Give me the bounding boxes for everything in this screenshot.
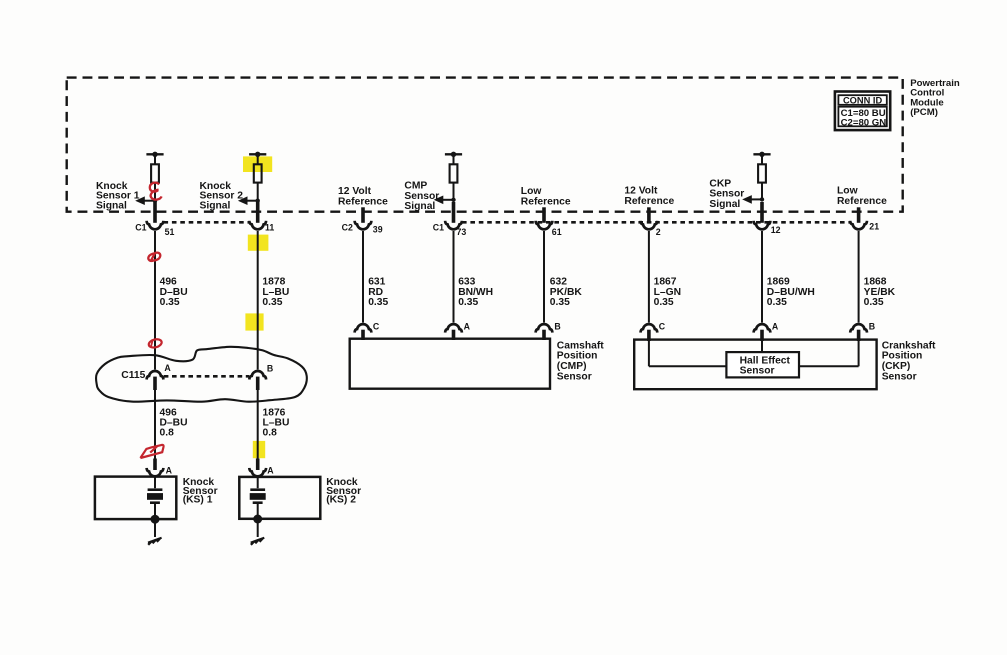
red scribble on KS1 driver resistor [150,183,162,200]
Knock Sensor (KS) 1 box [95,477,176,519]
dotted connector line C1 pins 51-11 [164,221,250,224]
connector terminal C at CMP [355,324,372,333]
svg-text:CONN ID: CONN ID [843,95,883,105]
dashed link between C115 pins A and B [164,375,249,378]
red scribble on wire 496 upper [148,253,160,261]
piezo element in KS2 [257,477,259,488]
svg-text:C: C [659,322,666,332]
CMP pin C stub [361,330,365,340]
connector terminal 21 (PCM side) [850,221,867,230]
pin stub 21 [857,207,861,223]
highlighter mark below pin 11 [248,235,269,251]
piezo element in KS1 [154,477,156,488]
CONN ID table outer box [835,92,890,131]
connector C1 terminal 73 (PCM side) [445,221,462,230]
svg-text:B: B [554,322,560,332]
arrow to CKP Sensor Signal label [742,195,752,204]
wire 1867 [648,231,650,323]
wire 1878 upper segment [257,231,259,370]
svg-text:KnockSensor(KS) 2: KnockSensor(KS) 2 [326,477,361,506]
junction dot in KS2 [253,515,262,524]
highlighter mark above KS2 pin A [253,441,265,458]
wire 632 [543,231,545,323]
svg-text:B: B [267,363,273,373]
red circle on wire 496 at blob [148,338,163,349]
svg-text:B: B [869,322,875,332]
resistor CKP driver in PCM [753,153,770,155]
svg-text:73: 73 [457,227,467,237]
svg-text:A: A [464,322,471,332]
connector A at KS1 [147,468,164,477]
highlighter mark over KS2 driver resistor [243,156,272,172]
ground symbol KS1 [148,538,162,543]
Crankshaft Position (CKP) Sensor box [634,340,876,390]
svg-text:21: 21 [869,222,879,232]
resistor KS2 driver in PCM [249,153,266,155]
svg-text:C2: C2 [342,223,353,233]
wire 1869 [761,231,763,323]
wire 631 [362,231,364,323]
connector terminal C at CKP [641,324,658,333]
CKP pin C stub [647,330,651,341]
pin stub 39 [361,207,365,223]
CKP internal wire from pin B [858,341,860,367]
PCM module dashed outline [67,78,903,212]
svg-text:61: 61 [552,227,562,237]
connector A at KS2 [249,468,266,477]
svg-text:A: A [267,466,274,476]
pin stub 51 [153,202,157,223]
connector C115 terminal A [147,371,164,380]
svg-text:C115: C115 [121,370,145,381]
Knock Sensor (KS) 2 box [239,477,320,519]
resistor KS1 driver in PCM [146,153,163,155]
red scribble above KS1 pin A [140,445,163,458]
pin stub 11 [256,202,260,223]
svg-text:51: 51 [165,227,175,237]
CKP internal wire from pin C [648,341,650,367]
connector terminal A at CKP [754,324,771,333]
arrow to Knock Sensor 2 Signal label [238,196,248,205]
CKP pin B stub [857,330,861,341]
svg-text:2: 2 [656,227,661,237]
connector terminal B at CMP [536,324,553,333]
connector C1 terminal 51 (PCM side) [147,221,164,230]
svg-text:A: A [772,322,779,332]
wire 1876 lower segment [257,390,259,460]
C115 pin B stub [256,377,260,390]
highlighter mark above C115 pin B [245,313,263,330]
pin stub 61 [542,207,546,223]
svg-text:39: 39 [373,224,383,234]
connector terminal 11 (PCM side) [249,221,266,230]
CKP internal wire from pin A [761,341,763,354]
pin stub 12 [760,202,764,223]
svg-text:C: C [373,322,380,332]
connector terminal B at CKP [850,324,867,333]
connector terminal 61 (PCM side) [536,221,553,230]
C115 pin A stub [153,377,157,390]
svg-text:KnockSensor(KS) 1: KnockSensor(KS) 1 [183,477,218,506]
wire 496 lower segment [154,390,156,460]
connector terminal 2 (PCM side) [641,221,658,230]
connector terminal A at CMP [445,324,462,333]
Camshaft Position (CMP) Sensor box [350,339,550,389]
connector terminal 12 (PCM side) [754,221,771,230]
arrow to CMP Sensor Signal label [434,196,444,205]
wire 1868 [858,231,860,323]
svg-text:C1: C1 [135,223,146,233]
KS1 pin stub A [153,459,157,471]
ground symbol KS2 [251,538,265,543]
CONN ID value cell [838,107,886,127]
connector C2 terminal 39 (PCM side) [355,221,372,230]
svg-text:12: 12 [771,225,781,235]
CONN ID header cell [838,95,886,105]
svg-text:11: 11 [265,223,274,233]
pin stub 2 [647,207,651,223]
svg-text:A: A [166,466,173,476]
KS2 ground lead [257,519,259,537]
connector C115 terminal B [249,371,266,380]
CMP pin A stub [452,330,456,340]
junction dot in KS1 [151,515,160,524]
KS1 ground lead [154,519,156,537]
arrow to Knock Sensor 1 Signal label [135,196,145,205]
wire 633 [453,231,455,323]
wire 496 upper segment [154,231,156,370]
pin stub 73 [452,202,456,223]
KS2 pin stub A [256,459,260,471]
CMP pin B stub [542,330,546,340]
resistor CMP driver in PCM [445,153,462,155]
dotted connector line pins 73-21 [462,221,850,224]
svg-text:C2=80 GN: C2=80 GN [841,118,887,129]
svg-text:A: A [164,363,171,373]
Hall Effect Sensor box [726,352,799,377]
hand-drawn loop around C115 connector [96,347,307,402]
svg-text:C1: C1 [433,223,444,233]
CKP pin A stub [760,330,764,341]
